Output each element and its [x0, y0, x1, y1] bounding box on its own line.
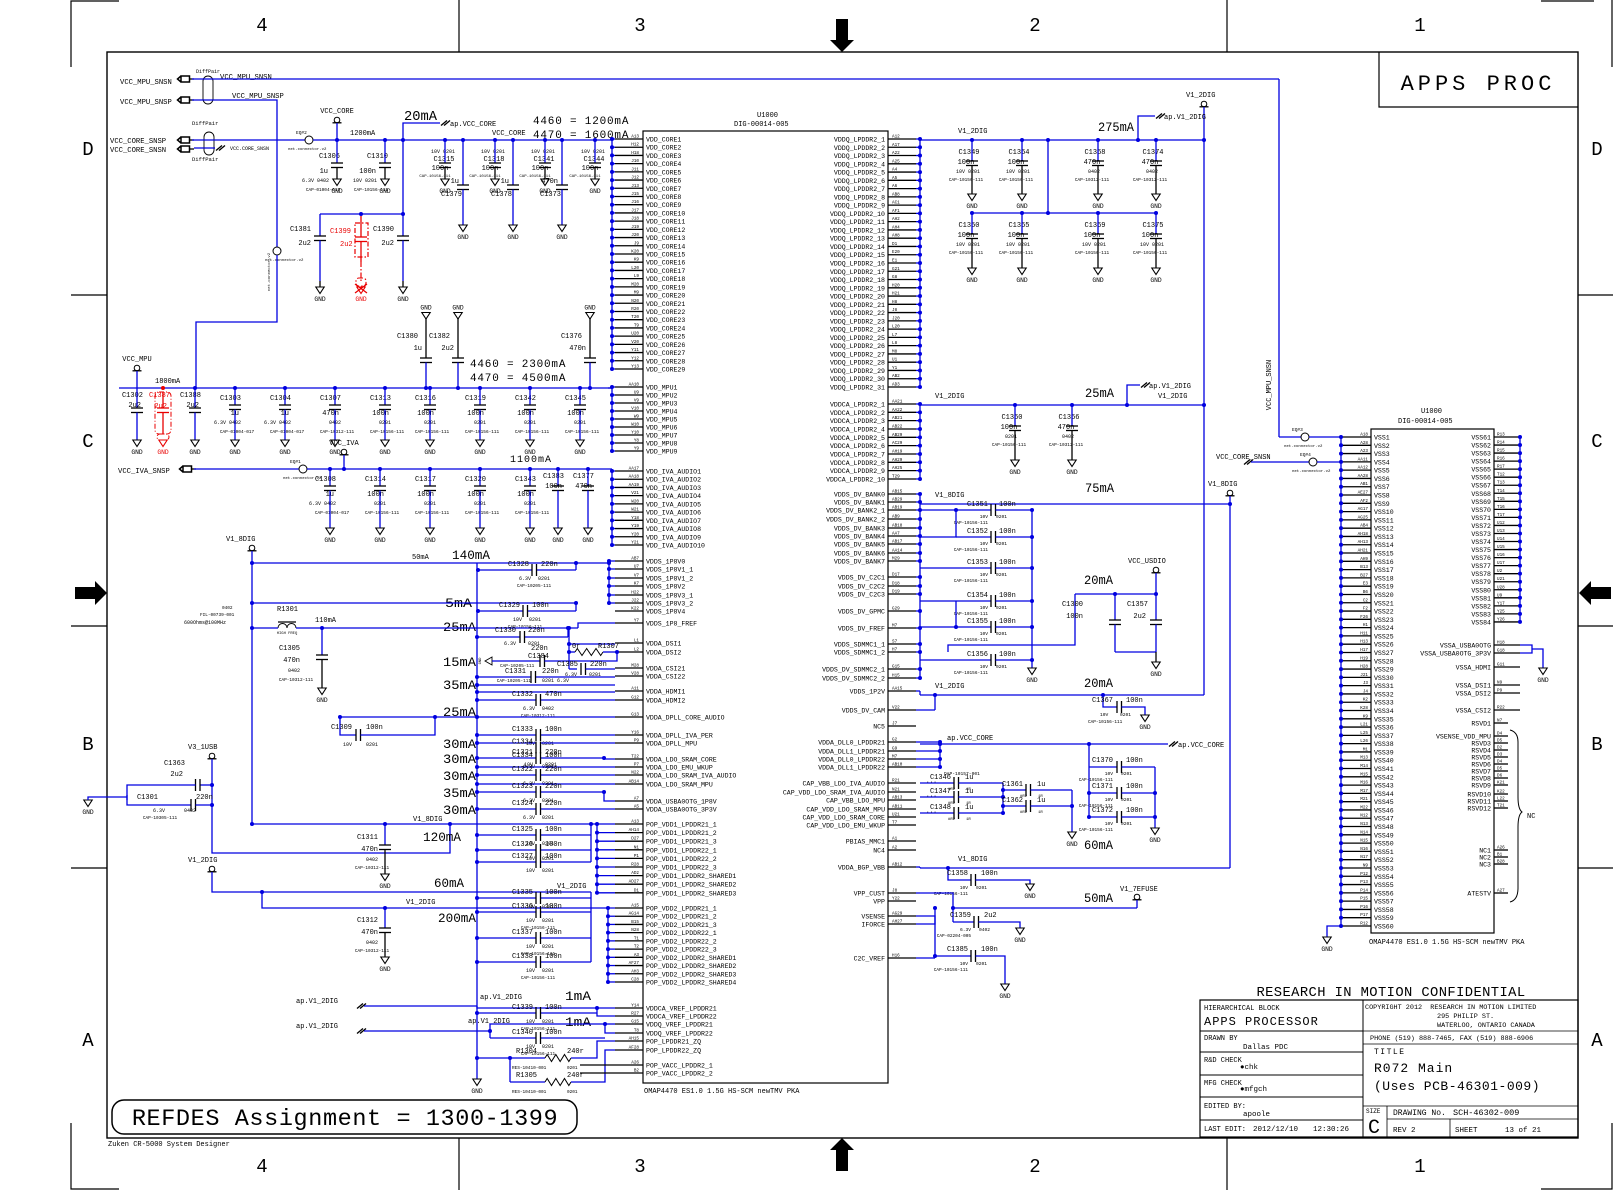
svg-text:VSS37: VSS37	[1374, 733, 1394, 740]
capacitor C1335	[535, 892, 537, 904]
svg-text:H13: H13	[1360, 640, 1368, 645]
U1000 pin VDD_CORE23 (T20)	[615, 319, 643, 321]
svg-text:GND: GND	[157, 449, 169, 456]
svg-text:Y20: Y20	[631, 532, 639, 537]
svg-text:VDDQ_LPDDR2_23: VDDQ_LPDDR2_23	[830, 318, 885, 325]
svg-text:2u2: 2u2	[186, 402, 199, 410]
svg-text:0201: 0201	[1121, 771, 1132, 777]
U1000 pin VDDS_DV_BANK1 (AB29)	[888, 501, 916, 503]
ground for C1301	[126, 795, 128, 800]
svg-text:10V: 10V	[980, 572, 989, 578]
svg-text:VDDQ_LPDDR2_26: VDDQ_LPDDR2_26	[830, 343, 885, 350]
capacitor C1316	[428, 386, 432, 390]
svg-text:CAP-10156-111: CAP-10156-111	[954, 671, 989, 676]
svg-text:V1_2DIG: V1_2DIG	[406, 899, 435, 907]
svg-text:100n: 100n	[532, 165, 549, 173]
svg-text:GND: GND	[552, 537, 564, 544]
svg-text:U21: U21	[1497, 577, 1505, 582]
svg-text:220n: 220n	[545, 749, 562, 757]
capacitor C1320	[478, 467, 482, 471]
svg-text:POP_VDD1_LPDDR21_1: POP_VDD1_LPDDR21_1	[646, 822, 717, 829]
U1000 pin VDDS_1P8V3_2 (J22)	[615, 602, 643, 604]
svg-text:C1351: C1351	[967, 501, 988, 509]
svg-text:VSS32: VSS32	[1374, 691, 1394, 698]
svg-text:13 of 21: 13 of 21	[1505, 1127, 1542, 1135]
svg-text:100n: 100n	[367, 491, 384, 499]
svg-text:VSS20: VSS20	[1374, 592, 1394, 599]
resistor R1304	[477, 1057, 545, 1059]
ground for C1342	[526, 440, 534, 447]
U1000 pin VDDQ_LPDDR2_3 (A22)	[888, 155, 916, 157]
svg-text:POP_VACC_LPDDR2_2: POP_VACC_LPDDR2_2	[646, 1071, 713, 1078]
svg-text:K9: K9	[1363, 714, 1369, 719]
U1000 pin VSS2 (A28)	[1341, 444, 1371, 446]
svg-text:RSVD11: RSVD11	[1467, 799, 1491, 806]
svg-text:HIGH FREQ: HIGH FREQ	[277, 632, 298, 636]
capacitor C1345	[578, 386, 582, 390]
svg-text:C1328: C1328	[508, 561, 529, 569]
svg-text:VSS35: VSS35	[1374, 716, 1394, 723]
svg-text:1800mA: 1800mA	[155, 378, 181, 386]
svg-text:N17: N17	[1360, 855, 1368, 860]
U1000 pin VDDA_USBA0OTG_3P3V (A5)	[615, 808, 643, 810]
svg-text:V1_2DIG: V1_2DIG	[188, 857, 217, 865]
svg-text:M28: M28	[631, 664, 639, 669]
svg-text:100n: 100n	[1066, 613, 1083, 621]
U1000 pin VSS37 (L25)	[1341, 734, 1371, 736]
svg-text:VDDS_DV_BANK2_1: VDDS_DV_BANK2_1	[826, 508, 885, 515]
svg-text:U9: U9	[1497, 593, 1503, 598]
svg-text:VSS9: VSS9	[1374, 501, 1390, 508]
svg-text:LAST EDIT:: LAST EDIT:	[1204, 1126, 1246, 1134]
capacitor C1318	[493, 138, 497, 142]
svg-text:J12: J12	[631, 176, 639, 181]
U1000 pin VSS82 (Y17)	[1494, 605, 1520, 607]
U1000 pin VDDCA_LPDDR2_4 (AB22)	[888, 428, 916, 430]
U1000 pin POP_VDD2_LPDDR2_SHARED3 (AH3)	[615, 973, 643, 975]
svg-text:0r: 0r	[572, 643, 580, 651]
U1000 pin VSS34 (K28)	[1341, 710, 1371, 712]
svg-text:C1374: C1374	[1142, 149, 1163, 157]
resistor R1307	[569, 651, 575, 653]
svg-text:0402: 0402	[184, 808, 196, 814]
svg-text:T29: T29	[892, 474, 900, 479]
svg-text:L21: L21	[1360, 723, 1368, 728]
svg-text:VDDA_USBA0OTG_1P8V: VDDA_USBA0OTG_1P8V	[646, 799, 717, 806]
U1000 pin VDD_CORE2 (H12)	[615, 146, 643, 148]
svg-text:VDDCA_LPDDR2_4: VDDCA_LPDDR2_4	[830, 426, 885, 433]
U1000 pin VDD_CORE4 (J10)	[615, 163, 643, 165]
ground for C1361 group	[1068, 832, 1076, 839]
svg-text:AG29: AG29	[892, 912, 903, 917]
svg-text:VDD_IVA_AUDIO10: VDD_IVA_AUDIO10	[646, 542, 705, 549]
capacitor C1378	[511, 138, 515, 142]
svg-text:H19: H19	[1360, 656, 1368, 661]
svg-text:0402: 0402	[542, 706, 554, 712]
U1000 pin VDDS_DV_SDMMC2_2 (H15)	[888, 677, 916, 679]
svg-text:VSS80: VSS80	[1471, 587, 1491, 594]
svg-text:100n: 100n	[981, 870, 998, 878]
U1000 pin VDD_CORE20 (M9)	[615, 294, 643, 296]
svg-text:P13: P13	[1360, 880, 1368, 885]
wire DSI1 row	[569, 643, 615, 645]
svg-text:R12: R12	[1360, 921, 1368, 926]
U1000 pin VSS66 (T12)	[1494, 476, 1520, 478]
svg-text:100n: 100n	[372, 410, 389, 418]
U1000 pin NC3 (B28)	[1494, 863, 1508, 865]
svg-text:AH9: AH9	[1360, 557, 1368, 562]
svg-text:220n: 220n	[528, 627, 545, 635]
wire C1361 right bus	[1071, 790, 1073, 832]
ground for C1399	[357, 287, 365, 294]
U1000 pin VDD_MPU6 (W10)	[615, 426, 643, 428]
capacitor C1388	[193, 386, 197, 390]
svg-text:ap.V1_2DIG: ap.V1_2DIG	[468, 1018, 510, 1026]
wire VCC_USDIO subnet	[1155, 573, 1157, 594]
svg-text:net.connector.v2: net.connector.v2	[267, 252, 272, 291]
svg-text:VSS79: VSS79	[1471, 579, 1491, 586]
svg-text:VDDQ_LPDDR2_24: VDDQ_LPDDR2_24	[830, 327, 885, 334]
svg-text:100n: 100n	[517, 410, 534, 418]
svg-text:VDD_IVA_AUDIO3: VDD_IVA_AUDIO3	[646, 485, 701, 492]
svg-text:VDD_CORE24: VDD_CORE24	[646, 325, 685, 332]
U1000 pin VDD_IVA_AUDIO10 (Y21)	[615, 544, 643, 546]
svg-text:VDD_CORE7: VDD_CORE7	[646, 186, 681, 193]
svg-text:M7: M7	[892, 624, 898, 629]
ground for C1385	[1001, 984, 1009, 991]
svg-text:GND: GND	[331, 188, 343, 195]
svg-text:C1329: C1329	[499, 602, 520, 610]
svg-text:VDD_IVA_AUDIO9: VDD_IVA_AUDIO9	[646, 534, 701, 541]
sheet alignment arrow left	[75, 581, 107, 605]
U1000 pin VSS19 (E3)	[1341, 585, 1371, 587]
U1000 pin VSS5 (AA12)	[1341, 469, 1371, 471]
svg-text:VDD_CORE16: VDD_CORE16	[646, 260, 685, 267]
svg-text:VSSA_CSI2: VSSA_CSI2	[1456, 708, 1491, 715]
svg-text:GND: GND	[314, 296, 326, 303]
svg-text:POP_LPDDR22_ZQ: POP_LPDDR22_ZQ	[646, 1048, 701, 1055]
U1000 pin VDD_IVA_AUDIO9 (Y20)	[615, 536, 643, 538]
svg-text:Y26: Y26	[1497, 617, 1505, 622]
svg-text:AH18: AH18	[1358, 532, 1369, 537]
svg-text:D: D	[82, 139, 93, 161]
svg-text:VSS36: VSS36	[1374, 725, 1394, 732]
ground for C1383	[554, 528, 562, 535]
svg-text:100n: 100n	[545, 853, 562, 861]
U1000 pin VSS32 (J4)	[1341, 693, 1371, 695]
svg-text:AB18: AB18	[892, 524, 903, 529]
svg-text:J9: J9	[634, 241, 640, 246]
svg-text:D18: D18	[892, 582, 900, 587]
svg-text:CAP_VBB_LDO_IVA_AUDIO: CAP_VBB_LDO_IVA_AUDIO	[802, 781, 885, 788]
svg-text:100n: 100n	[366, 724, 383, 732]
svg-text:POP_VDD2_LPDDR22_3: POP_VDD2_LPDDR22_3	[646, 947, 717, 954]
svg-text:R072 Main: R072 Main	[1374, 1061, 1453, 1076]
svg-text:J8: J8	[892, 308, 898, 313]
svg-text:C1316: C1316	[415, 395, 436, 403]
svg-text:AE27: AE27	[1358, 491, 1369, 496]
svg-text:GND: GND	[379, 188, 391, 195]
svg-text:VDD_IVA_AUDIO2: VDD_IVA_AUDIO2	[646, 477, 701, 484]
U1000 pin VDD_CORE1 (A13)	[615, 138, 643, 140]
svg-text:GND: GND	[420, 305, 432, 312]
wire GND bus	[476, 563, 478, 1079]
svg-text:AA17: AA17	[629, 467, 640, 472]
U1000 pin VDD_IVA_AUDIO3 (AA19)	[615, 486, 643, 488]
svg-text:VDDA_DLL1_LPDDR22: VDDA_DLL1_LPDDR22	[818, 765, 885, 772]
svg-text:VDDS_1P8V2: VDDS_1P8V2	[646, 584, 685, 591]
svg-text:V21: V21	[631, 491, 639, 496]
svg-text:VSS83: VSS83	[1471, 611, 1491, 618]
svg-text:J10: J10	[631, 159, 639, 164]
U1000 pin RSVD11 (L22)	[1494, 800, 1508, 802]
svg-text:6.3V: 6.3V	[504, 641, 516, 647]
capacitor C1358	[948, 868, 971, 880]
U1000 pin VSSA_DSI1 (N9)	[1494, 684, 1520, 686]
capacitor C1311	[383, 822, 387, 826]
svg-text:AH13: AH13	[1358, 540, 1369, 545]
wire C1346 right bus	[1002, 783, 1004, 813]
svg-text:CAP-10156-111: CAP-10156-111	[1133, 251, 1168, 256]
svg-text:A17: A17	[892, 143, 900, 148]
U1000 pin VDD_CORE3 (H18)	[615, 154, 643, 156]
svg-text:2u2: 2u2	[154, 403, 167, 411]
svg-text:C1375: C1375	[1142, 222, 1163, 230]
svg-text:VSS64: VSS64	[1471, 459, 1491, 466]
svg-text:VDDS_1P8V4: VDDS_1P8V4	[646, 609, 685, 616]
svg-text:0201: 0201	[996, 572, 1007, 578]
svg-text:VDDQ_LPDDR2_31: VDDQ_LPDDR2_31	[830, 384, 885, 391]
svg-text:10V: 10V	[960, 961, 969, 967]
svg-text:VDDS_DV_C2C1: VDDS_DV_C2C1	[838, 575, 885, 582]
svg-text:VSS25: VSS25	[1374, 633, 1394, 640]
svg-text:B: B	[82, 734, 93, 756]
U1000 pin VDDQ_LPDDR2_29 (Y1)	[888, 369, 916, 371]
svg-text:1200mA: 1200mA	[350, 130, 376, 138]
svg-text:C1345: C1345	[565, 395, 586, 403]
svg-text:100n: 100n	[1126, 783, 1143, 791]
svg-text:VSS44: VSS44	[1374, 791, 1394, 798]
svg-text:VSS33: VSS33	[1374, 700, 1394, 707]
U1000 pin VDDCA_LPDDR2_3 (AB21)	[888, 420, 916, 422]
svg-text:C1378: C1378	[491, 191, 512, 199]
svg-text:0201 6.3V: 0201 6.3V	[542, 678, 569, 684]
U1000 pin VDDQ_LPDDR2_4 (A25)	[888, 163, 916, 165]
svg-text:GND: GND	[1092, 203, 1104, 210]
svg-text:VDD_IVA_AUDIO1: VDD_IVA_AUDIO1	[646, 469, 701, 476]
svg-text:A23: A23	[1360, 449, 1368, 454]
U1000 pin VDD_IVA_AUDIO2 (AA18)	[615, 478, 643, 480]
ground for C1378	[509, 225, 517, 232]
svg-text:#R2: #R2	[1020, 811, 1028, 815]
U1000 pin VSS44 (M17)	[1341, 792, 1371, 794]
U1000 pin VDD_IVA_AUDIO5 (W20)	[615, 503, 643, 505]
svg-text:C1321: C1321	[512, 749, 533, 757]
svg-text:K7: K7	[634, 582, 640, 587]
ground for C1306	[333, 179, 341, 186]
svg-text:J18: J18	[631, 217, 639, 222]
svg-text:6.3V: 6.3V	[523, 815, 535, 821]
svg-text:POP_VDD1_LPDDR2_SHARED3: POP_VDD1_LPDDR2_SHARED3	[646, 890, 736, 897]
svg-text:Y18: Y18	[631, 516, 639, 521]
svg-text:VDD_CORE28: VDD_CORE28	[646, 358, 685, 365]
ground for C1320	[476, 528, 484, 535]
svg-text:Zuken CR-5000 System Designer: Zuken CR-5000 System Designer	[108, 1141, 230, 1149]
svg-text:100n: 100n	[545, 1029, 562, 1037]
ground for C1387	[159, 440, 167, 447]
U1000 pin VDD_MPU8 (Y8)	[615, 442, 643, 444]
svg-text:470n: 470n	[361, 929, 378, 937]
svg-text:C1312: C1312	[357, 917, 378, 925]
ground for C1316	[426, 440, 434, 447]
capacitor C1312	[384, 908, 386, 928]
U1000 pin POP_VDD1_LPDDR22_1 (N1)	[615, 849, 643, 851]
svg-text:T22: T22	[631, 755, 639, 760]
svg-text:L7: L7	[892, 333, 898, 338]
wire VCC_MPU_SNSN to right edge	[192, 78, 1279, 80]
svg-text:A7: A7	[634, 797, 640, 802]
svg-text:100n: 100n	[467, 491, 484, 499]
svg-text:VSS59: VSS59	[1374, 915, 1394, 922]
svg-text:3: 3	[634, 1156, 645, 1178]
U1000 pin VSS52 (N17)	[1341, 859, 1371, 861]
svg-text:100n: 100n	[999, 528, 1016, 536]
svg-text:0402: 0402	[366, 857, 378, 863]
capacitor C1353	[956, 567, 991, 569]
capacitor C1313	[383, 386, 387, 390]
svg-text:VSSA_USBA0OTG: VSSA_USBA0OTG	[1440, 643, 1491, 650]
U1000 pin VDDA_BGP_VBB (AB12)	[888, 866, 916, 868]
svg-text:0402: 0402	[979, 927, 990, 933]
svg-text:VDDQ_LPDDR2_6: VDDQ_LPDDR2_6	[834, 178, 885, 185]
svg-text:DRAWN BY: DRAWN BY	[1204, 1035, 1238, 1043]
svg-text:VDDA_CSI21: VDDA_CSI21	[646, 666, 685, 673]
svg-text:GND: GND	[1026, 677, 1038, 684]
U1000 pin VSS29 (H28)	[1341, 668, 1371, 670]
U1000 pin VDDS_SDMMC1_2 (H7)	[888, 651, 916, 653]
svg-text:D19: D19	[892, 590, 900, 595]
ground for C1365	[1018, 268, 1026, 275]
svg-text:VDDQ_LPDDR2_22: VDDQ_LPDDR2_22	[830, 310, 885, 317]
svg-text:GND: GND	[397, 296, 409, 303]
svg-text:POP_VDD2_LPDDR2_SHARED1: POP_VDD2_LPDDR2_SHARED1	[646, 955, 736, 962]
svg-text:J17: J17	[631, 208, 639, 213]
svg-text:VSS12: VSS12	[1374, 526, 1394, 533]
U1000 pin VSS71 (T17)	[1494, 516, 1520, 518]
svg-text:CAP-10156-111: CAP-10156-111	[365, 511, 400, 516]
capacitor C1372	[1089, 816, 1117, 818]
U1000 pin VDDQ_LPDDR2_23 (J20)	[888, 320, 916, 322]
svg-text:VDDS_SDMMC1_1: VDDS_SDMMC1_1	[834, 642, 885, 649]
U1000 pin POP_VACC_LPDDR2_2 (B2)	[615, 1072, 643, 1074]
ground for C1318	[491, 179, 499, 186]
svg-text:M15: M15	[1360, 772, 1368, 777]
svg-text:A11: A11	[631, 687, 639, 692]
svg-text:470n: 470n	[569, 345, 586, 353]
svg-text:R20: R20	[631, 307, 639, 312]
U1000 pin POP_VDD1_LPDDR2_SHARED3 (D1)	[615, 892, 643, 894]
svg-text:0201: 0201	[542, 1044, 554, 1050]
svg-text:A12: A12	[892, 135, 900, 140]
svg-text:10V: 10V	[980, 605, 989, 611]
svg-text:VDDQ_LPDDR2_12: VDDQ_LPDDR2_12	[830, 227, 885, 234]
U1000 pin VSS68 (T14)	[1494, 492, 1520, 494]
svg-text:C1379: C1379	[441, 191, 462, 199]
svg-text:6.3V: 6.3V	[960, 927, 971, 933]
svg-text:J3: J3	[1363, 681, 1369, 686]
svg-text:VDDQ_LPDDR2_11: VDDQ_LPDDR2_11	[830, 219, 885, 226]
svg-text:VDDS_DV_BANK0: VDDS_DV_BANK0	[834, 492, 885, 499]
wire C1370 right bus	[1154, 767, 1156, 828]
svg-text:470n: 470n	[575, 483, 592, 491]
svg-text:RSVD10: RSVD10	[1467, 792, 1491, 799]
svg-text:U1: U1	[892, 358, 898, 363]
svg-text:C1354: C1354	[967, 592, 988, 600]
svg-text:Y22: Y22	[892, 897, 900, 902]
net connector EQ2 VCC_MPU_SNSN	[1279, 436, 1301, 438]
svg-text:GND: GND	[582, 537, 594, 544]
U1000 pin VSS36 (L21)	[1341, 726, 1371, 728]
U1000 pin CAP_VDD_LDO_SRAM_IVA_AUDIO (N21)	[888, 791, 916, 793]
svg-text:K22: K22	[1497, 790, 1505, 795]
svg-text:R22: R22	[1497, 706, 1505, 711]
svg-text:VDDS_DV_SDMMC2_1: VDDS_DV_SDMMC2_1	[822, 667, 885, 674]
svg-text:VDD_CORE6: VDD_CORE6	[646, 178, 681, 185]
svg-text:CAP_VDD_LDO_SRAM_MPU: CAP_VDD_LDO_SRAM_MPU	[806, 807, 885, 814]
svg-text:VDD_CORE1: VDD_CORE1	[646, 137, 681, 144]
svg-text:J15: J15	[631, 192, 639, 197]
svg-text:100n: 100n	[432, 165, 449, 173]
svg-text:VDDQ_LPDDR2_21: VDDQ_LPDDR2_21	[830, 302, 885, 309]
svg-text:CAP-10156-111: CAP-10156-111	[565, 430, 600, 435]
rows C1335-C1338	[477, 897, 536, 899]
svg-text:0201: 0201	[996, 664, 1007, 670]
svg-text:U12: U12	[1497, 521, 1505, 526]
U1000 pin VDDA_DLL0_LPDDR22 (M7)	[888, 758, 916, 760]
svg-text:W20: W20	[631, 499, 639, 504]
U1000 pin POP_VDD2_LPDDR2_SHARED4 (C28)	[615, 981, 643, 983]
wire V1_2DIG sub-rail	[972, 212, 1156, 214]
svg-text:100n: 100n	[545, 929, 562, 937]
U1000 pin POP_VDD2_LPDDR22_1 (N28)	[615, 932, 643, 934]
U1000 pin VSS30 (J21)	[1341, 676, 1371, 678]
ground for C1369	[1094, 268, 1102, 275]
svg-text:VSSA_USBA0OTG_3P3V: VSSA_USBA0OTG_3P3V	[1420, 651, 1491, 658]
svg-text:VDD_CORE8: VDD_CORE8	[646, 194, 681, 201]
U1000 pin VDD_MPU5 (W9)	[615, 418, 643, 420]
wire VSS bus to ground	[1327, 926, 1341, 937]
svg-text:C1324: C1324	[512, 800, 533, 808]
wire VDD_IVA pin bus	[611, 469, 613, 545]
svg-text:POP_VDD2_LPDDR2_SHARED4: POP_VDD2_LPDDR2_SHARED4	[646, 979, 736, 986]
U1000 pin VDDQ_LPDDR2_15 (E20)	[888, 254, 916, 256]
svg-text:25mA: 25mA	[1085, 387, 1114, 401]
U1000 pin VDDS_DV_BANK4 (AA7)	[888, 535, 916, 537]
svg-text:G15: G15	[892, 665, 900, 670]
svg-text:GND: GND	[556, 234, 568, 241]
svg-text:K28: K28	[1360, 706, 1368, 711]
svg-text:VDDCA_LPDDR2_3: VDDCA_LPDDR2_3	[830, 418, 885, 425]
U1000 pin VDDCA_LPDDR2_2 (AA22)	[888, 411, 916, 413]
svg-text:10V: 10V	[513, 617, 522, 623]
svg-text:N14: N14	[1360, 830, 1368, 835]
IC U1000 (main block)	[643, 131, 888, 1083]
svg-text:NC5: NC5	[873, 724, 885, 731]
svg-text:VDDQ_LPDDR2_27: VDDQ_LPDDR2_27	[830, 351, 885, 358]
svg-text:D: D	[1591, 139, 1602, 161]
U1000 pin VDD_CORE8 (J15)	[615, 195, 643, 197]
svg-text:VSS56: VSS56	[1374, 890, 1394, 897]
